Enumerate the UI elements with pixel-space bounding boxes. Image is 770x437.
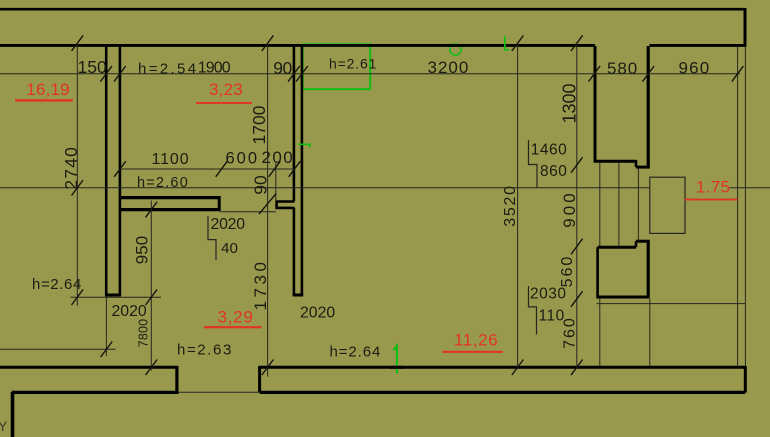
tick on y297 line x150.8	[146, 289, 158, 305]
construction line: right lower horizontal y303.5	[597, 303, 746, 305]
extension line x737.6 (960 dim)	[737, 47, 739, 367]
green L marker on top wall	[505, 36, 509, 50]
tick on x267.6 line y204 (long)	[259, 193, 276, 214]
wall bottom: left segment bottom edge	[12, 391, 179, 394]
tick on top dim line x302	[296, 66, 308, 82]
wall bottom: left downward wall	[11, 392, 15, 437]
door threshold: bottom wall opening y392.3	[179, 391, 260, 393]
svg-text:h=2.60: h=2.60	[137, 175, 189, 191]
tick on top dim line x294	[288, 66, 300, 82]
tick on right column y299	[571, 291, 583, 307]
svg-text:200: 200	[262, 148, 295, 167]
tick on room dim x221.5	[216, 161, 228, 177]
wall right-assembly lower: bottom edge	[596, 296, 649, 299]
wall bottom: left segment top edge	[0, 366, 177, 369]
svg-text:11,26: 11,26	[454, 331, 498, 350]
wall right-assembly upper: jamb right vertical	[647, 46, 650, 169]
tick on y187.8 line x77	[72, 180, 84, 196]
tick on room dim x274.5	[269, 161, 281, 177]
wall right-assembly lower: jamb right vertical	[647, 241, 650, 297]
svg-text:560: 560	[559, 255, 576, 288]
svg-text:1.75: 1.75	[696, 178, 730, 197]
svg-text:600: 600	[226, 150, 260, 168]
THIN-START	[0, 44, 770, 392]
underline for 3,23	[196, 102, 252, 104]
underline for 1.75	[685, 199, 738, 201]
wall right-assembly lower: step line 2	[636, 240, 650, 243]
svg-text:2740: 2740	[61, 146, 81, 190]
tick on bottom wall x150.8	[146, 360, 158, 376]
svg-text:7800: 7800	[136, 319, 150, 348]
extension line x275.8 short	[275, 164, 277, 201]
leader bracket for 2030/110	[529, 286, 537, 335]
svg-text:1900: 1900	[198, 60, 231, 77]
extension line x77.3 (2740 dim)	[76, 44, 78, 306]
svg-text:860: 860	[540, 163, 567, 180]
wall W1 left line	[105, 46, 108, 295]
tick on top dim line x120	[114, 66, 126, 82]
wall bottom: right end cap	[744, 366, 747, 393]
door leaf rectangle (right entrance)	[650, 177, 685, 233]
underline for 16,19	[15, 99, 73, 101]
wall bottom: right segment top edge	[260, 366, 746, 369]
tick on top dim line x106	[100, 66, 112, 82]
wall: top outer edge H1	[0, 8, 745, 11]
svg-text:Y: Y	[0, 418, 8, 434]
svg-text:h=2.63: h=2.63	[177, 342, 233, 359]
svg-text:h=2.64: h=2.64	[32, 276, 82, 293]
wall right-assembly upper: step vertical	[635, 160, 638, 167]
svg-text:90: 90	[251, 175, 271, 195]
svg-text:40: 40	[221, 240, 238, 257]
svg-text:2020: 2020	[300, 305, 335, 322]
doorway jamb thin line x599.8 upper	[599, 163, 601, 246]
construction line: long horizontal y187.8 left part	[0, 187, 650, 189]
extension line x576.8 (right column dims)	[576, 44, 578, 367]
wall stub A right cap	[218, 196, 221, 211]
extension line x106.4 below wall	[105, 297, 107, 356]
tick on room dim x120	[114, 161, 126, 177]
doorway jamb thin line x618.9	[618, 163, 620, 246]
svg-text:950: 950	[133, 236, 152, 264]
green dash marker on middle wall	[298, 144, 310, 147]
TICKS-START	[72, 35, 744, 375]
svg-text:960: 960	[679, 59, 711, 78]
svg-text:3520: 3520	[502, 184, 519, 226]
leader bracket for 1460/860	[529, 140, 538, 188]
wall W2 left line upper segment	[293, 46, 296, 201]
construction line: horizontal y187.8 right part	[730, 187, 770, 189]
doorway jamb thin line x638.4	[637, 169, 639, 242]
tick on top dim line x594	[589, 66, 601, 82]
tick on wall H2 x77	[72, 35, 84, 51]
wall bottom: right segment bottom edge	[260, 391, 746, 394]
tick on bottom wall x576.8	[571, 360, 583, 376]
svg-text:h=2.64: h=2.64	[330, 344, 382, 361]
extension line x150.4 (950/7800 dim)	[150, 201, 152, 371]
tick on bottom wall x517.6	[512, 360, 524, 376]
wall W2 right line	[301, 46, 304, 295]
wall right-assembly lower: step line 1	[598, 246, 636, 249]
tick on top dim line x648	[643, 66, 655, 82]
TEXT-START	[0, 56, 710, 435]
wall right-assembly lower: step vertical	[635, 241, 638, 247]
tick on wall H2 x267.6	[262, 35, 274, 51]
extension line x745.4 building edge	[744, 47, 746, 366]
tick on top dim line x737.6	[732, 66, 744, 82]
svg-text:1300: 1300	[560, 83, 580, 123]
tick on wall H2 x576.8	[571, 35, 583, 51]
svg-text:1100: 1100	[152, 151, 190, 168]
dimension line: y349 left	[0, 348, 116, 350]
wall: top inner edge H2 left segment	[0, 44, 595, 47]
tick on right column y165	[571, 157, 583, 173]
svg-text:2020: 2020	[211, 216, 246, 233]
svg-text:3,23: 3,23	[209, 80, 243, 99]
wall H2 repaint over green circle	[448, 44, 464, 47]
underline for 11,26	[442, 351, 502, 353]
dimension line: y297 left	[71, 296, 162, 298]
wall right-assembly lower: jamb left vertical	[596, 247, 599, 297]
green rectangle around h=2.61 (under walls)	[303, 44, 371, 89]
wall bottom: left segment end cap	[175, 366, 178, 393]
wall right-assembly upper: step line 1	[594, 160, 636, 163]
wall: top-right outer corner vertical	[744, 8, 747, 46]
wall stub A top line	[120, 196, 219, 199]
wall right-assembly upper: jamb left vertical	[594, 46, 597, 161]
wall stub B notch rectangle	[277, 202, 295, 208]
extension line x267.6 (1730 dim)	[267, 44, 269, 377]
green "1" marker bottom middle	[394, 346, 397, 374]
tick on room dim x294.5	[289, 161, 301, 177]
wall W2 left line lower segment	[293, 208, 296, 295]
svg-text:h=2.54: h=2.54	[138, 61, 198, 78]
svg-text:h=2.61: h=2.61	[329, 56, 377, 72]
door threshold: stub A opening y211.8	[220, 211, 276, 213]
tick on stub A bottom x150.4	[146, 202, 158, 218]
tick on bottom wall x267.6	[262, 360, 274, 376]
wall repaint over green bottom marker	[390, 366, 403, 369]
extension line x599.8 lower	[599, 299, 601, 367]
svg-text:3,29: 3,29	[218, 307, 254, 326]
svg-text:1700: 1700	[249, 105, 269, 144]
svg-text:2020: 2020	[112, 303, 147, 320]
svg-text:760: 760	[562, 316, 579, 349]
dimension line: top horizontal y73.8	[0, 73, 740, 75]
wall: top inner edge H2 right segment	[650, 44, 747, 47]
svg-text:900: 900	[560, 190, 579, 227]
svg-text:16,19: 16,19	[26, 80, 70, 99]
extension line x649.8 lower	[649, 299, 651, 367]
wall W1 bottom cap	[105, 294, 121, 297]
svg-text:580: 580	[607, 59, 638, 78]
leader bracket for 2020/40	[208, 216, 216, 260]
extension line x517.6 (3520 dim)	[517, 44, 519, 367]
underline for 3,29	[204, 326, 262, 328]
svg-text:1460: 1460	[531, 142, 567, 159]
svg-text:3200: 3200	[428, 58, 470, 77]
tick on y349 line x106.4	[101, 342, 113, 358]
svg-text:150: 150	[78, 57, 107, 77]
wall bottom: right segment start cap	[258, 366, 261, 393]
green circle marker on top wall	[450, 44, 461, 55]
tick on right column y246.5	[571, 239, 583, 255]
tick on wall H2 x517.6	[512, 35, 524, 51]
dimension line: room horizontal y169	[120, 168, 296, 170]
wall stub A bottom line	[120, 208, 219, 211]
wall W1 right line	[119, 46, 122, 295]
GREEN-START	[450, 44, 461, 55]
svg-text:1730: 1730	[251, 259, 270, 311]
tick on y297 line x77	[72, 289, 84, 305]
wall W2 bottom cap	[293, 294, 304, 297]
svg-text:90: 90	[273, 58, 292, 78]
wall right-assembly upper: step line 2	[636, 166, 650, 169]
